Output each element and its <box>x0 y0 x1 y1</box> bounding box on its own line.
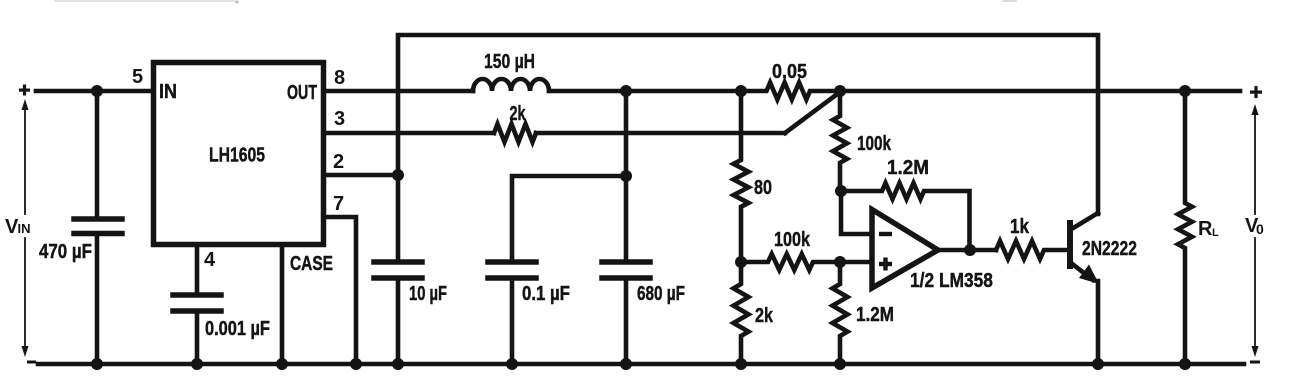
wire pin 3 <box>326 131 494 136</box>
svg-text:CASE: CASE <box>290 252 333 274</box>
resistor R2 0.05 <box>741 83 840 100</box>
wire top rail <box>398 35 1098 260</box>
node junction output <box>964 244 976 256</box>
node gnd junction R8 <box>834 358 846 370</box>
svg-text:IN: IN <box>159 81 177 103</box>
VIN annotation arrow <box>24 108 26 348</box>
svg-text:8: 8 <box>334 67 345 89</box>
resistor R6 1.2M feedback <box>841 183 970 250</box>
svg-text:0: 0 <box>1256 221 1264 237</box>
node gnd junction C2 <box>191 358 203 370</box>
svg-text:10 µF: 10 µF <box>409 282 447 305</box>
wire CASE <box>280 247 285 364</box>
svg-text:4: 4 <box>204 249 216 271</box>
wire 680uF vertical <box>624 91 629 260</box>
svg-text:5: 5 <box>132 66 143 88</box>
scan artifact top line <box>55 0 235 2</box>
node gnd junction C1 <box>91 358 103 370</box>
transistor Q1 2N2222 base bar <box>1067 223 1073 266</box>
svg-text:0.1 µF: 0.1 µF <box>522 282 570 305</box>
svg-text:150 µH: 150 µH <box>484 50 535 72</box>
svg-text:1.2M: 1.2M <box>856 303 894 326</box>
svg-text:R: R <box>1198 218 1213 240</box>
resistor R5 100k vertical <box>833 91 847 191</box>
wire inverting input <box>841 191 872 234</box>
node junction 0.1uF tee <box>620 170 632 182</box>
node gnd junction pin7 <box>350 358 362 370</box>
resistor R3 80 vertical <box>734 91 749 262</box>
V0 annotation arrow <box>1254 113 1256 348</box>
node junction RL top <box>1179 85 1191 97</box>
svg-text:100k: 100k <box>774 228 811 250</box>
wire pin 8 OUT <box>326 89 473 94</box>
svg-text:0.05: 0.05 <box>772 61 807 83</box>
op-amp U2 triangle <box>872 210 938 289</box>
resistor R10 RL <box>1178 91 1192 364</box>
capacitor C5 680uF <box>602 259 650 265</box>
wire output line right <box>840 89 1240 94</box>
node VIN+ terminal <box>19 85 30 96</box>
node junction 0.05 right <box>834 85 846 97</box>
resistor R7 100k plus input <box>741 254 872 270</box>
capacitor C4 0.1uF <box>488 259 536 265</box>
node junction plus input right <box>834 256 846 268</box>
svg-text:0.001 µF: 0.001 µF <box>205 316 270 339</box>
capacitor C3 10uF <box>374 259 422 265</box>
node gnd junction CASE <box>276 358 288 370</box>
wire input line <box>36 89 153 94</box>
node V0+ terminal <box>1250 86 1262 98</box>
scan artifact dot <box>236 1 239 4</box>
op-amp plus sign <box>879 258 892 271</box>
transistor collector <box>1070 213 1098 230</box>
node junction feedback <box>835 185 847 197</box>
node gnd junction C5 <box>620 358 632 370</box>
wire pin 7 <box>324 217 356 364</box>
svg-text:OUT: OUT <box>287 81 317 104</box>
wire ground rail <box>38 362 1244 367</box>
op-amp minus sign <box>879 232 892 236</box>
resistor R8 1.2M vertical <box>833 262 848 364</box>
inductor L1 150uH <box>473 79 549 91</box>
node gnd junction Q1 <box>1092 358 1104 370</box>
node input junction <box>91 85 103 97</box>
node gnd junction C3 <box>392 358 404 370</box>
svg-text:80: 80 <box>754 176 772 198</box>
wire op-amp output <box>938 248 996 253</box>
svg-text:2: 2 <box>333 151 344 173</box>
svg-text:IN: IN <box>18 221 31 236</box>
wire pin3 to diagonal <box>536 131 785 136</box>
svg-text:1/2 LM358: 1/2 LM358 <box>910 269 993 291</box>
resistor R4 2k vertical <box>734 262 749 364</box>
resistor R1 2k (pin3) <box>494 124 536 142</box>
transistor emitter <box>1071 263 1093 280</box>
svg-text:1.2M: 1.2M <box>887 157 929 180</box>
node gnd junction R4 <box>735 358 747 370</box>
wire OUT to node <box>549 89 741 94</box>
svg-text:2N2222: 2N2222 <box>1082 237 1137 259</box>
wire emitter to ground <box>1096 281 1101 364</box>
wire diagonal to sense node <box>785 92 840 133</box>
node gnd junction RL <box>1179 358 1191 370</box>
svg-text:L: L <box>1212 227 1219 239</box>
svg-text:3: 3 <box>334 108 345 130</box>
capacitor C1 470uF <box>95 91 100 217</box>
transistor emitter arrowhead <box>1079 265 1099 285</box>
svg-text:470 µF: 470 µF <box>39 240 92 263</box>
capacitor C2 0.001uF <box>173 292 221 298</box>
svg-text:2k: 2k <box>510 102 526 125</box>
node junction 0.05 left <box>735 85 747 97</box>
svg-text:2k: 2k <box>755 304 774 326</box>
svg-text:1k: 1k <box>1010 215 1030 238</box>
resistor R9 1k <box>996 241 1068 259</box>
regulator U1 LH1605 box <box>154 63 324 245</box>
node junction 680uF top <box>620 85 632 97</box>
wire pin 4 <box>195 247 200 293</box>
svg-text:LH1605: LH1605 <box>209 144 265 166</box>
node gnd junction C4 <box>506 358 518 370</box>
svg-text:100k: 100k <box>857 132 891 154</box>
node junction plus input left <box>735 256 747 268</box>
wire 0.1uF L-branch <box>512 176 626 260</box>
node junction pin2 <box>392 169 404 181</box>
svg-text:7: 7 <box>333 193 344 215</box>
svg-text:680 µF: 680 µF <box>637 282 685 304</box>
wire pin 2 <box>324 173 398 178</box>
